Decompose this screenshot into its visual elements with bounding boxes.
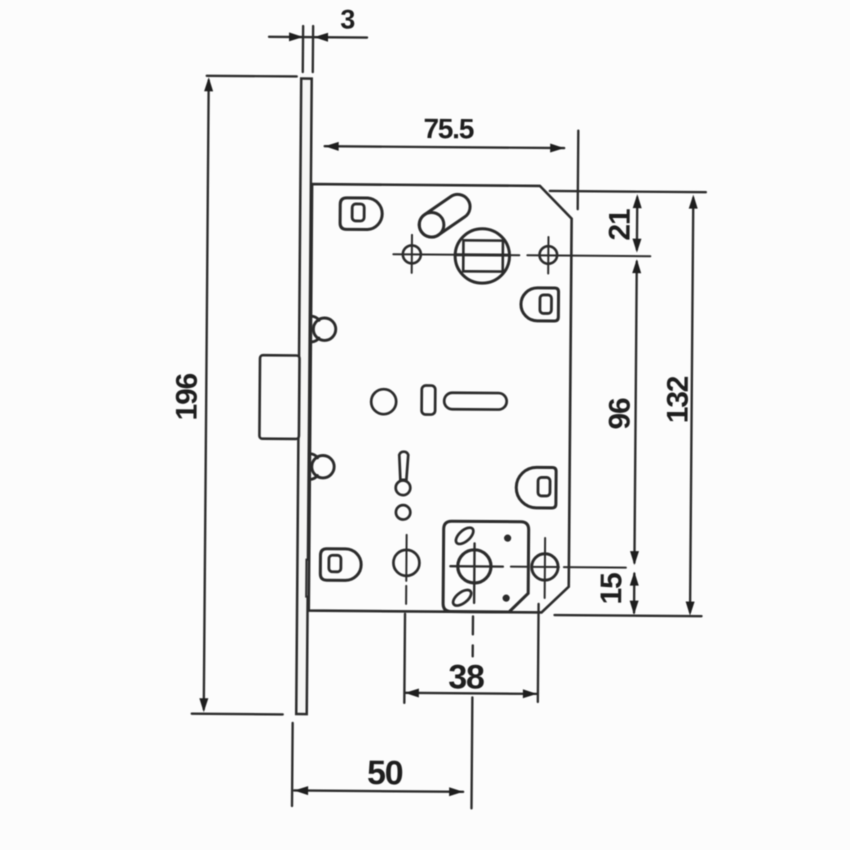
- bottom row centerline: [511, 566, 626, 569]
- plate center circle: [458, 550, 491, 583]
- svg-text:132: 132: [662, 376, 695, 423]
- latch bolt: [259, 355, 299, 439]
- center dash line below plate: [471, 616, 473, 808]
- spindle square: [463, 240, 503, 271]
- D-hole right middle: [521, 288, 559, 321]
- dimension 15 arrows: [630, 572, 639, 615]
- D-hole bottom-left: [320, 549, 361, 581]
- spindle hub circle: [455, 229, 510, 284]
- capsule end circle: [419, 212, 444, 237]
- teardrop slot: [399, 452, 408, 480]
- circle with vertical line (stop pin): [393, 550, 419, 576]
- lug bump lower on left edge: [312, 455, 335, 478]
- svg-text:196: 196: [171, 373, 204, 420]
- dimension 3 ext lines: [303, 26, 313, 72]
- dimension 21 line: [636, 198, 639, 250]
- dimension 15 line: [633, 574, 636, 613]
- dimension 132 line: [690, 198, 693, 612]
- plate dot upper: [504, 535, 511, 542]
- dimension 50 left ext line: [291, 723, 294, 806]
- dimension 21 arrows: [632, 194, 641, 253]
- diagonal capsule slot: [419, 194, 470, 237]
- svg-text:21: 21: [603, 209, 636, 241]
- dimension 38 left ext line: [403, 614, 406, 703]
- grey tab upper on faceplate: [310, 201, 318, 235]
- grey tab lower on faceplate: [306, 560, 314, 597]
- dimension 50 arrows: [294, 786, 463, 796]
- dimension 96 line: [634, 262, 636, 563]
- svg-text:38: 38: [448, 658, 484, 696]
- dimension 50 line: [294, 790, 463, 791]
- dimension 196 ext lines: [192, 76, 297, 715]
- spindle square mid line: [456, 253, 509, 256]
- right ext line bottom: [555, 615, 702, 616]
- dimension 96 arrows: [630, 259, 641, 565]
- dimension 38 arrows: [405, 688, 537, 698]
- dimension 3 arrows: [289, 32, 328, 41]
- D-hole top-left: [340, 198, 382, 230]
- D-hole right lower: [516, 467, 556, 508]
- dimension 196 arrows: [199, 77, 213, 712]
- dimension 75.5 arrows: [325, 142, 565, 153]
- dimension 196 line: [204, 80, 209, 709]
- teardrop end circle: [396, 480, 411, 495]
- dimension 75.5 right ext line: [577, 131, 580, 209]
- dimension 75.5 line: [325, 146, 564, 148]
- crosshair circle left of hub: [403, 245, 421, 263]
- svg-text:3: 3: [340, 4, 355, 34]
- dimension 3 line: [269, 36, 367, 39]
- D-hole top-left inner slot: [352, 204, 364, 221]
- svg-text:96: 96: [603, 398, 636, 430]
- plate oval hole lower: [450, 587, 473, 608]
- faceplate: [296, 79, 311, 715]
- svg-text:75.5: 75.5: [423, 113, 474, 144]
- right ext line top: [550, 191, 706, 192]
- plate crosshair: [450, 543, 503, 603]
- centerline row1: [393, 254, 650, 256]
- horizontal stadium slot: [444, 393, 507, 410]
- dimension 132 arrows: [686, 195, 698, 616]
- plate oval hole upper: [453, 525, 476, 547]
- D-hole right lower inner slot: [538, 477, 550, 496]
- svg-text:50: 50: [367, 754, 403, 792]
- small circle middle row: [371, 389, 396, 414]
- D-hole bottom-left inner slot: [329, 555, 341, 572]
- dimension 38 right ext line: [537, 604, 540, 702]
- follower vertical centerline: [544, 538, 546, 598]
- crosshair circle right (cylinder fix hole): [539, 246, 557, 264]
- WC follower circle: [532, 554, 559, 581]
- dimension 38 line: [405, 693, 537, 694]
- lock body outline: [309, 184, 572, 613]
- lug bump upper on left edge: [313, 318, 336, 341]
- small vertical slot: [422, 385, 436, 414]
- plate dot lower: [503, 595, 510, 602]
- svg-text:15: 15: [595, 573, 628, 605]
- stop pin centerline: [405, 535, 408, 604]
- WC follower plate: [443, 521, 529, 612]
- D-hole right middle inner slot: [540, 295, 552, 314]
- small circle below teardrop: [396, 505, 411, 520]
